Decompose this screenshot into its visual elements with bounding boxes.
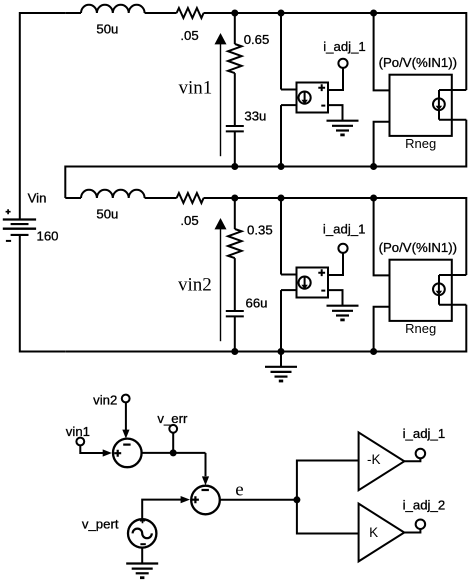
svg-text:vin2: vin2: [93, 392, 117, 407]
svg-text:i_adj_2: i_adj_2: [403, 498, 446, 513]
svg-text:vin1: vin1: [179, 78, 213, 99]
svg-text:i_adj_1: i_adj_1: [403, 426, 446, 441]
svg-text:160: 160: [37, 228, 59, 243]
svg-text:e: e: [235, 479, 243, 500]
svg-text:66u: 66u: [246, 296, 268, 311]
svg-text:0.65: 0.65: [244, 32, 270, 47]
svg-text:Vin: Vin: [28, 190, 47, 205]
svg-text:v_err: v_err: [157, 411, 188, 426]
svg-text:vin2: vin2: [178, 274, 212, 295]
svg-text:33u: 33u: [244, 109, 266, 124]
svg-text:i_adj_1: i_adj_1: [323, 39, 366, 54]
svg-text:v_pert: v_pert: [82, 517, 119, 532]
svg-text:K: K: [369, 525, 378, 540]
svg-text:0.35: 0.35: [247, 222, 273, 237]
svg-text:vin1: vin1: [66, 424, 90, 439]
svg-text:i_adj_1: i_adj_1: [323, 222, 366, 237]
svg-text:-K: -K: [367, 452, 381, 467]
